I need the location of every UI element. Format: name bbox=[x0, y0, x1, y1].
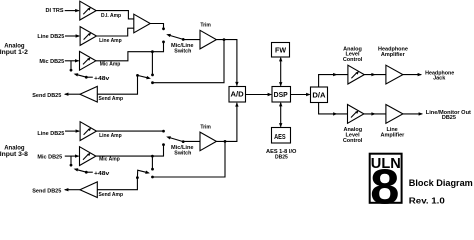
svg-text:Mic DB25: Mic DB25 bbox=[37, 155, 62, 161]
svg-text:+48v: +48v bbox=[94, 76, 109, 82]
svg-text:Amplifier: Amplifier bbox=[381, 52, 406, 58]
svg-text:Send Amp: Send Amp bbox=[99, 192, 124, 198]
svg-text:DB25: DB25 bbox=[442, 115, 456, 121]
svg-text:Line Amp: Line Amp bbox=[99, 133, 122, 139]
svg-text:Send Amp: Send Amp bbox=[99, 96, 124, 102]
svg-text:D.I. Amp: D.I. Amp bbox=[101, 13, 121, 19]
svg-text:D/A: D/A bbox=[312, 92, 325, 99]
svg-text:Line DB25: Line DB25 bbox=[37, 131, 64, 137]
svg-text:Send DB25: Send DB25 bbox=[32, 189, 61, 195]
svg-text:Switch: Switch bbox=[174, 49, 191, 55]
svg-text:Line Amp: Line Amp bbox=[99, 38, 122, 44]
svg-text:Line DB25: Line DB25 bbox=[37, 34, 64, 40]
svg-text:Amplifier: Amplifier bbox=[380, 133, 405, 139]
svg-text:DI TRS: DI TRS bbox=[45, 8, 63, 14]
svg-text:Trim: Trim bbox=[200, 22, 211, 28]
svg-text:+48v: +48v bbox=[94, 171, 109, 177]
svg-text:Control: Control bbox=[343, 138, 363, 144]
svg-text:Rev. 1.0: Rev. 1.0 bbox=[409, 196, 445, 206]
svg-text:Mic DB25: Mic DB25 bbox=[39, 59, 64, 65]
svg-text:Mic Amp: Mic Amp bbox=[99, 157, 120, 163]
svg-text:Jack: Jack bbox=[433, 76, 446, 82]
svg-text:Input 1-2: Input 1-2 bbox=[0, 50, 29, 56]
svg-text:8: 8 bbox=[370, 159, 399, 208]
svg-text:AES: AES bbox=[274, 134, 286, 141]
svg-text:Mic Amp: Mic Amp bbox=[100, 61, 121, 67]
svg-text:Control: Control bbox=[343, 57, 363, 63]
svg-text:DSP: DSP bbox=[274, 92, 288, 99]
svg-text:Block Diagram: Block Diagram bbox=[409, 178, 473, 188]
svg-text:Send DB25: Send DB25 bbox=[32, 93, 61, 99]
svg-text:Input 3-8: Input 3-8 bbox=[0, 152, 29, 158]
svg-text:FW: FW bbox=[275, 47, 286, 54]
svg-text:A/D: A/D bbox=[231, 92, 244, 99]
svg-text:Analog: Analog bbox=[4, 145, 25, 151]
svg-text:Analog: Analog bbox=[4, 44, 25, 50]
svg-text:DB25: DB25 bbox=[275, 155, 288, 161]
svg-text:Switch: Switch bbox=[174, 150, 191, 156]
svg-text:Trim: Trim bbox=[200, 125, 211, 131]
